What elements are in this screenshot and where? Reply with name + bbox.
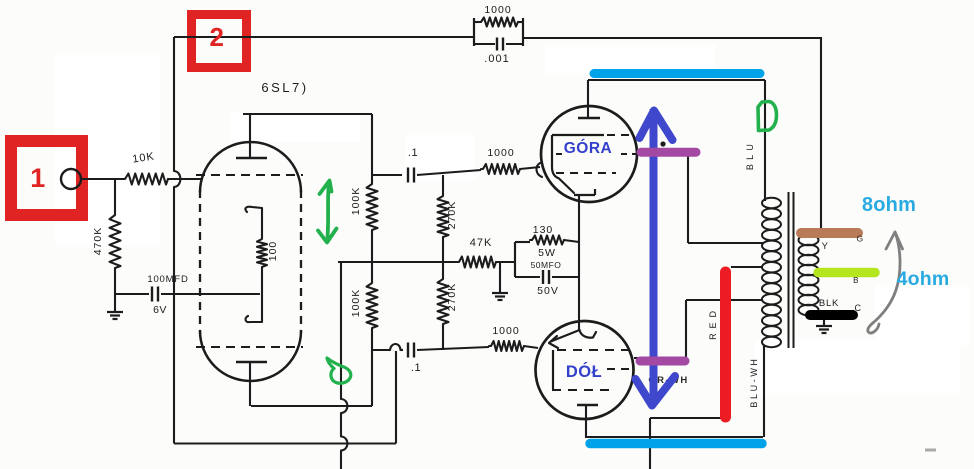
svg-text:DÓŁ: DÓŁ bbox=[566, 362, 602, 381]
svg-text:130: 130 bbox=[533, 224, 554, 236]
svg-text:6SL7): 6SL7) bbox=[261, 80, 308, 95]
svg-text:GÓRA: GÓRA bbox=[564, 139, 613, 157]
svg-text:5W: 5W bbox=[538, 247, 556, 259]
svg-text:50MFO: 50MFO bbox=[531, 260, 562, 270]
svg-text:.1: .1 bbox=[408, 147, 418, 159]
svg-text:BLU-WH: BLU-WH bbox=[749, 356, 759, 407]
svg-text:470K: 470K bbox=[92, 227, 104, 256]
svg-text:100MFD: 100MFD bbox=[147, 274, 188, 285]
svg-text:1000: 1000 bbox=[487, 147, 514, 159]
svg-text:2: 2 bbox=[210, 22, 225, 52]
svg-text:BLK: BLK bbox=[819, 298, 839, 309]
svg-text:50V: 50V bbox=[537, 285, 559, 297]
svg-text:1000: 1000 bbox=[484, 4, 511, 16]
svg-text:100K: 100K bbox=[350, 289, 362, 318]
svg-text:100K: 100K bbox=[350, 187, 362, 216]
svg-text:BLU: BLU bbox=[745, 140, 755, 170]
svg-text:B: B bbox=[853, 276, 859, 285]
svg-text:.001: .001 bbox=[484, 53, 509, 65]
svg-text:6V: 6V bbox=[153, 304, 167, 316]
svg-text:8ohm: 8ohm bbox=[862, 194, 916, 216]
svg-text:4ohm: 4ohm bbox=[897, 268, 950, 290]
svg-text:1: 1 bbox=[30, 163, 46, 193]
svg-text:270K: 270K bbox=[446, 201, 458, 230]
svg-text:1000: 1000 bbox=[492, 325, 519, 337]
svg-text:270K: 270K bbox=[446, 283, 458, 312]
svg-text:Y: Y bbox=[822, 241, 829, 252]
svg-text:47K: 47K bbox=[470, 237, 493, 249]
svg-text:RED: RED bbox=[708, 306, 718, 340]
svg-text:.1: .1 bbox=[411, 362, 421, 374]
svg-text:100: 100 bbox=[267, 241, 279, 262]
svg-text:G: G bbox=[856, 234, 863, 244]
